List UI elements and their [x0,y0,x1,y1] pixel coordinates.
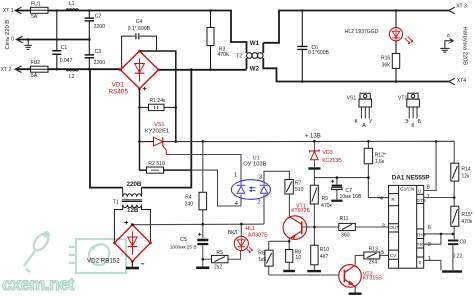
svg-text:FU2: FU2 [31,60,41,66]
svg-text:W2: W2 [250,65,260,72]
svg-text:К: К [411,123,414,129]
svg-text:470к: 470к [461,219,472,225]
svg-text:RS405: RS405 [109,89,129,96]
svg-text:DTS: DTS [417,198,426,203]
svg-text:КТ315Б: КТ315Б [363,276,382,282]
svg-text:R1 24к: R1 24к [150,98,167,104]
svg-text:5А: 5А [31,14,38,20]
svg-text:С5: С5 [180,237,187,243]
svg-text:OUT: OUT [389,225,399,230]
svg-text:VD2 RB152: VD2 RB152 [87,258,120,265]
svg-text:DA1 NE555P: DA1 NE555P [392,174,430,181]
svg-text:36К: 36К [382,62,391,68]
svg-text:ОУ 103В: ОУ 103В [243,161,266,167]
svg-text:2К4: 2К4 [369,259,378,265]
svg-text:R11: R11 [340,216,349,222]
svg-text:Сеть 220 В: Сеть 220 В [5,20,11,50]
svg-text:cxem.net: cxem.net [2,274,75,294]
svg-text:0.1*600В: 0.1*600В [308,50,330,56]
svg-text:360: 360 [341,233,350,239]
svg-text:C2: C2 [95,13,102,19]
svg-text:КТ972Б: КТ972Б [291,208,310,214]
svg-text:R4: R4 [185,194,192,200]
svg-text:0.22: 0.22 [453,253,463,259]
svg-text:R2 510: R2 510 [148,161,165,167]
svg-text:VS1: VS1 [347,96,357,102]
svg-text:L2: L2 [69,74,75,80]
svg-text:2200: 2200 [94,24,105,30]
svg-text:1: 1 [428,256,431,262]
svg-text:R15*: R15* [461,212,472,218]
svg-text:0: 0 [419,260,422,265]
svg-text:HL1: HL1 [245,226,255,232]
svg-text:0: 0 [11,36,14,42]
svg-text:R5: R5 [216,250,223,256]
svg-text:ХТ 3: ХТ 3 [456,3,467,9]
svg-text:2200: 2200 [94,60,105,66]
svg-text:R14: R14 [461,166,471,172]
svg-text:R6: R6 [258,250,265,256]
svg-text:К: К [355,119,358,125]
svg-text:R13: R13 [369,247,379,253]
svg-text:VD1: VD1 [112,81,125,88]
svg-text:470К: 470К [218,52,229,58]
svg-text:АЛ307Б: АЛ307Б [248,232,268,238]
svg-text:КС213Б: КС213Б [322,158,342,164]
svg-text:240: 240 [185,201,194,207]
svg-text:12к: 12к [461,173,470,179]
svg-text:0.1* 600В: 0.1* 600В [128,26,151,32]
svg-text:12В: 12В [127,207,139,214]
svg-text:220В: 220В [127,181,142,188]
svg-text:C4: C4 [136,19,143,25]
svg-text:о: о [447,33,450,39]
svg-text:+ 13В: + 13В [305,133,321,139]
svg-text:510: 510 [295,187,304,193]
svg-text:VD3: VD3 [322,150,333,156]
svg-text:R12*: R12* [375,153,386,159]
svg-text:10мк 16В: 10мк 16В [340,194,362,200]
svg-text:ВКЛ: ВКЛ [228,230,238,236]
svg-text:ХТ4: ХТ4 [457,78,467,84]
svg-text:10: 10 [295,255,301,261]
svg-text:R16: R16 [381,55,391,61]
svg-text:Э: Э [405,119,409,125]
svg-text:0.047: 0.047 [60,58,73,64]
svg-text:R10: R10 [320,247,330,253]
svg-text:1к5: 1к5 [258,257,266,263]
svg-text:G1/CN: G1/CN [400,187,414,192]
svg-text:TR: TR [417,242,424,247]
svg-text:W1: W1 [250,40,260,47]
svg-text:7: 7 [427,194,430,200]
svg-text:THR: THR [416,233,426,238]
svg-text:5А: 5А [31,73,38,79]
svg-text:2х2: 2х2 [214,264,222,270]
svg-text:ХТ 1: ХТ 1 [3,8,14,14]
svg-text:CV: CV [390,253,397,258]
svg-text:L1: L1 [69,1,75,7]
svg-text:470к: 470к [321,203,332,209]
svg-text:Т1: Т1 [113,199,119,205]
svg-text:VS1: VS1 [154,122,164,128]
svg-text:1,6к: 1,6к [375,159,385,165]
svg-text:А: А [362,123,366,129]
svg-text:1000мк 25 В: 1000мк 25 В [170,244,197,249]
svg-text:4К7: 4К7 [320,254,329,260]
svg-text:VT1: VT1 [398,96,408,102]
svg-text:C3: C3 [95,49,102,55]
svg-text:1: 1 [234,172,237,178]
svg-text:Т2: Т2 [236,53,242,59]
svg-text:R9: R9 [322,196,329,202]
svg-text:Нагрузка 220В: Нагрузка 220В [462,27,468,66]
svg-text:2: 2 [428,242,431,248]
svg-text:R7: R7 [295,181,302,187]
svg-text:КУ202Е1: КУ202Е1 [145,129,169,135]
svg-text:C1: C1 [61,45,68,51]
svg-text:ХТ 2: ХТ 2 [1,67,12,73]
svg-text:HL2 L937GGD: HL2 L937GGD [345,29,379,35]
svg-text:2: 2 [257,200,260,206]
svg-text:FU1: FU1 [31,1,41,7]
svg-text:С8: С8 [460,240,467,246]
